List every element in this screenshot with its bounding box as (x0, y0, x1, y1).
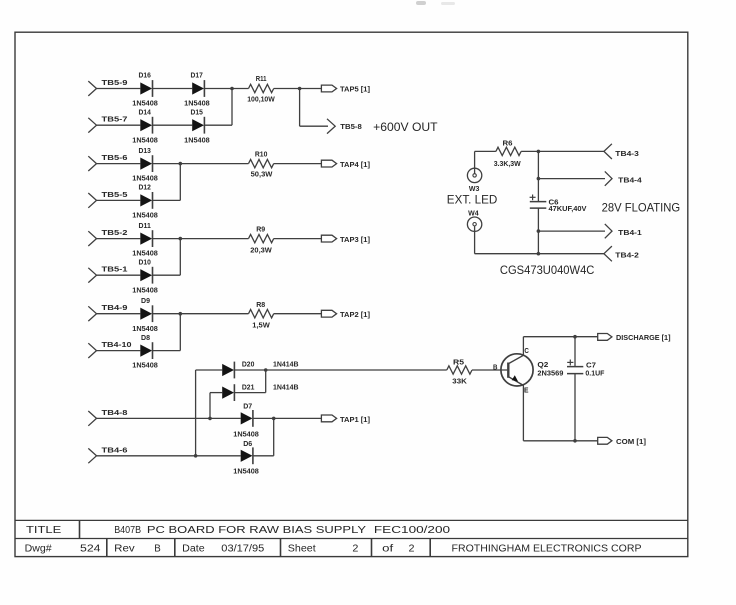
svg-text:Rev: Rev (114, 544, 135, 555)
svg-text:EXT. LED: EXT. LED (447, 192, 498, 206)
wire D15 right (204, 124, 232, 126)
terminal TB5-8 output arrow (327, 119, 335, 134)
junction J6 (D20/D21) (264, 368, 268, 372)
svg-text:1N5408: 1N5408 (184, 99, 210, 108)
wire D12 right (153, 199, 181, 201)
wire TB5-1 to D10 (97, 274, 141, 276)
wire emitter down (522, 385, 524, 440)
svg-text:TB4-2: TB4-2 (615, 251, 639, 260)
svg-text:R8: R8 (256, 300, 265, 309)
wire TB4-9 to D9 (97, 313, 141, 315)
diode D20 (222, 362, 234, 379)
terminal TB4-1 arrow (605, 224, 612, 238)
wire R5 to base (472, 369, 507, 371)
wire discharge rail (523, 336, 597, 338)
svg-text:Date: Date (182, 544, 205, 555)
wire D8 up to J5 (179, 314, 181, 351)
svg-text:D9: D9 (141, 296, 150, 305)
terminal TB4-4 arrow (605, 171, 612, 185)
svg-text:D10: D10 (139, 257, 151, 266)
wire to D21 anode (210, 392, 222, 394)
svg-text:TB4-10: TB4-10 (102, 340, 132, 349)
svg-text:28V FLOATING: 28V FLOATING (602, 201, 681, 215)
divider of/corp (429, 539, 431, 557)
svg-text:TB4-4: TB4-4 (618, 175, 642, 184)
junction J2 (TAP5/TB5-8) (298, 87, 302, 91)
divider dwg/rev (106, 539, 108, 557)
diode D6 (241, 447, 253, 464)
svg-text:R5: R5 (453, 357, 464, 366)
terminal W3 (467, 168, 481, 182)
svg-text:TB4-6: TB4-6 (102, 445, 128, 454)
svg-text:D21: D21 (242, 382, 255, 391)
svg-text:D6: D6 (243, 439, 252, 448)
capacitor C7 (567, 360, 583, 374)
svg-text:W4: W4 (468, 209, 479, 218)
svg-text:TAP3 [1]: TAP3 [1] (340, 235, 370, 244)
transistor Q2 body (501, 354, 533, 386)
wire D21 up to J6 (265, 370, 267, 393)
junction J9 (TB4-6/D20) (194, 454, 198, 458)
diode D15 (192, 117, 204, 134)
svg-text:TAP2 [1]: TAP2 [1] (340, 310, 370, 319)
svg-text:1N5408: 1N5408 (132, 285, 158, 294)
diode D14 (140, 117, 152, 134)
svg-text:Dwg#: Dwg# (25, 544, 52, 555)
wire R8 to TAP2 (274, 313, 322, 315)
wire D20 left drop (195, 370, 197, 456)
wire D14 to D15 (153, 124, 193, 126)
svg-text:524: 524 (80, 544, 101, 555)
svg-text:1N5408: 1N5408 (132, 211, 158, 220)
wire R10 to TAP4 (274, 163, 322, 165)
wire C7 bottom lead (574, 374, 576, 441)
wire D9 to R8 (153, 313, 249, 315)
svg-text:TITLE: TITLE (26, 525, 62, 536)
wire TB5-9 to D16 (97, 88, 141, 90)
svg-text:1,5W: 1,5W (252, 321, 270, 330)
diode D17 (192, 80, 204, 97)
svg-text:D20: D20 (242, 360, 255, 369)
scan smudge top (416, 1, 455, 5)
svg-text:FEC100/200: FEC100/200 (374, 525, 451, 536)
svg-text:1N5408: 1N5408 (132, 249, 158, 258)
wire collector up (522, 337, 524, 356)
wire C7 top lead (574, 337, 576, 367)
junction J5 (D9/D8) (179, 312, 183, 316)
wire TB4-6 to D6 (97, 455, 241, 457)
terminal TB4-6 input arrow (88, 448, 96, 463)
svg-text:R9: R9 (256, 225, 265, 234)
svg-text:D17: D17 (191, 71, 203, 80)
svg-text:2N3569: 2N3569 (537, 368, 563, 377)
svg-text:TB4-3: TB4-3 (615, 149, 639, 158)
svg-text:FROTHINGHAM ELECTRONICS CORP: FROTHINGHAM ELECTRONICS CORP (452, 544, 642, 555)
svg-text:1N5408: 1N5408 (233, 467, 258, 476)
svg-text:TAP5 [1]: TAP5 [1] (340, 85, 370, 94)
svg-text:1N414B: 1N414B (273, 360, 299, 369)
wire D20 to J6 (234, 369, 265, 371)
svg-text:TB5-1: TB5-1 (102, 265, 128, 274)
svg-text:1N5408: 1N5408 (132, 174, 158, 183)
wire D6 up to J8 (273, 418, 275, 455)
resistor R10 (249, 159, 274, 167)
resistor R8 (249, 310, 274, 318)
svg-text:TB5-7: TB5-7 (102, 115, 128, 124)
border frame (15, 32, 688, 556)
terminal TB5-1 input arrow (88, 268, 96, 283)
diode D10 (140, 267, 152, 284)
terminal TB5-6 input arrow (88, 156, 96, 171)
diode D8 (140, 342, 152, 359)
terminal TB5-9 input arrow (88, 81, 96, 96)
svg-text:2: 2 (409, 544, 415, 555)
title block top rule (15, 519, 688, 521)
svg-text:R10: R10 (255, 149, 268, 158)
divider sheet/of (371, 539, 373, 557)
junction J13 (TB4-4) (537, 177, 541, 181)
junction J4 (D11/D10) (179, 237, 183, 241)
junction J15 (TB4-2/bus) (537, 252, 541, 256)
terminal TB5-7 input arrow (88, 118, 96, 133)
wire com rail (523, 440, 597, 442)
terminal TB4-3 arrow (604, 144, 612, 159)
divider rev/date (174, 539, 176, 557)
flag COM (598, 437, 612, 444)
terminal W4 (467, 217, 481, 231)
wire D10 up to J4 (179, 239, 181, 276)
wire R6 to bus (521, 150, 604, 152)
junction J12 (R6/TB4-3) (537, 150, 541, 154)
svg-text:D14: D14 (139, 107, 151, 116)
svg-text:1N5408: 1N5408 (132, 99, 158, 108)
wire TB4-10 to D8 (97, 350, 141, 352)
flag TAP3 (321, 235, 336, 242)
svg-text:D13: D13 (139, 146, 151, 155)
terminal TB5-5 input arrow (88, 193, 96, 208)
wire TB4-2 rail (475, 253, 604, 255)
wire base net long (266, 369, 447, 371)
svg-text:TB4-1: TB4-1 (618, 228, 642, 237)
wire TB4-8 to D7 (97, 417, 241, 419)
diode D7 (241, 410, 253, 427)
capacitor C6 (530, 195, 547, 209)
svg-text:TB5-8: TB5-8 (340, 122, 362, 131)
svg-text:D15: D15 (191, 107, 203, 116)
svg-text:COM [1]: COM [1] (616, 437, 646, 446)
svg-text:D8: D8 (141, 333, 150, 342)
junction J7 (TB4-8/D21) (208, 417, 212, 421)
svg-text:TB5-6: TB5-6 (102, 153, 128, 162)
title cell divider (79, 520, 81, 538)
svg-text:33K: 33K (452, 376, 467, 385)
wire D16 to D17 (153, 88, 193, 90)
wire R11 to node J2 (274, 88, 322, 90)
wire to D20 anode (196, 369, 223, 371)
wire D17 to node J1 (204, 88, 248, 90)
flag TAP2 (321, 310, 336, 317)
svg-text:R6: R6 (503, 139, 513, 148)
junction J3 (D13/D12) (179, 162, 183, 166)
svg-text:1N414B: 1N414B (273, 382, 299, 391)
svg-text:TB4-8: TB4-8 (102, 408, 128, 417)
wire D15 up to J1 (231, 89, 233, 126)
svg-text:PC BOARD FOR RAW BIAS SUPPLY: PC BOARD FOR RAW BIAS SUPPLY (147, 525, 367, 536)
svg-text:B407B: B407B (114, 525, 141, 536)
wire D13 to R10 (153, 163, 249, 165)
resistor R6 (496, 147, 521, 155)
wire W3 up (474, 151, 476, 173)
wire D21 right (234, 392, 265, 394)
divider date/sheet (280, 539, 282, 557)
svg-text:D7: D7 (243, 401, 252, 410)
wire W3 to R6 (475, 150, 496, 152)
resistor R11 (249, 84, 274, 92)
terminal TB4-8 input arrow (88, 411, 96, 426)
junction J8 (D7/D6) (272, 417, 276, 421)
title block mid rule (15, 538, 688, 540)
wire D10 right (153, 274, 181, 276)
svg-text:CGS473U040W4C: CGS473U040W4C (500, 263, 595, 277)
svg-text:1N5408: 1N5408 (132, 135, 158, 144)
svg-text:B: B (154, 544, 161, 555)
wire D11 to R9 (153, 238, 249, 240)
svg-text:100,10W: 100,10W (247, 94, 275, 103)
wire TB5-2 to D11 (97, 238, 141, 240)
svg-text:50,3W: 50,3W (251, 169, 273, 178)
svg-text:TAP1 [1]: TAP1 [1] (340, 415, 370, 424)
junction J11 (C7 bottom) (573, 439, 577, 443)
wire TB5-5 to D12 (97, 199, 141, 201)
resistor R9 (249, 234, 274, 242)
svg-text:20,3W: 20,3W (250, 246, 272, 255)
junction J1 (D17/D15) (230, 87, 234, 91)
terminal TB5-2 input arrow (88, 231, 96, 246)
wire D21 left drop (209, 393, 211, 419)
wire D6 right (253, 455, 274, 457)
svg-text:03/17/95: 03/17/95 (221, 544, 264, 555)
svg-text:+600V OUT: +600V OUT (373, 120, 438, 134)
diode D13 (140, 155, 152, 172)
junction J10 (C7 top) (573, 335, 577, 339)
svg-text:D16: D16 (139, 71, 151, 80)
flag TAP1 (321, 415, 336, 422)
svg-text:D11: D11 (139, 221, 151, 230)
svg-text:47KUF,40V: 47KUF,40V (549, 204, 587, 213)
diode D21 (222, 384, 234, 401)
svg-text:1N5408: 1N5408 (132, 361, 158, 370)
resistor R5 (447, 366, 472, 374)
svg-text:TB4-9: TB4-9 (102, 303, 128, 312)
wire TB5-7 to D14 (97, 124, 141, 126)
svg-text:C: C (524, 346, 529, 355)
svg-text:TB5-5: TB5-5 (102, 190, 128, 199)
svg-text:TB5-2: TB5-2 (102, 228, 128, 237)
wire R9 to TAP3 (274, 238, 322, 240)
svg-text:0.1UF: 0.1UF (585, 369, 605, 378)
wire bus vertical lower (537, 208, 539, 254)
terminal TB4-9 input arrow (88, 306, 96, 321)
diode D9 (140, 305, 152, 322)
svg-text:1N5408: 1N5408 (184, 135, 210, 144)
svg-text:DISCHARGE [1]: DISCHARGE [1] (616, 333, 671, 342)
flag TAP5 (321, 85, 336, 92)
wire D7 to TAP1 (253, 417, 322, 419)
svg-text:D12: D12 (139, 183, 151, 192)
wire W4 down (474, 226, 476, 254)
wire J2 down (299, 89, 301, 127)
diode D11 (140, 230, 152, 247)
diode D16 (140, 80, 152, 97)
wire D12 up to J3 (179, 164, 181, 201)
wire bus vertical upper (537, 151, 539, 201)
flag TAP4 (321, 160, 336, 167)
svg-text:1N5408: 1N5408 (132, 324, 158, 333)
svg-text:E: E (524, 385, 529, 394)
terminal TB4-10 input arrow (88, 343, 96, 358)
wire to TB5-8 (300, 125, 328, 127)
svg-text:TB5-9: TB5-9 (102, 78, 128, 87)
svg-text:R11: R11 (256, 74, 267, 83)
terminal TB4-2 arrow (604, 246, 612, 261)
svg-text:1N5408: 1N5408 (233, 430, 258, 439)
wire TB4-1 branch (538, 230, 605, 232)
wire TB5-6 to D13 (97, 163, 141, 165)
diode D12 (140, 192, 152, 209)
svg-text:TAP4 [1]: TAP4 [1] (340, 160, 370, 169)
svg-text:3.3K,3W: 3.3K,3W (494, 159, 521, 168)
junction J14 (TB4-1) (537, 229, 541, 233)
wire D8 right (153, 350, 181, 352)
svg-text:of: of (382, 544, 393, 555)
wire TB4-4 branch (538, 178, 605, 180)
svg-text:Sheet: Sheet (288, 544, 316, 555)
svg-text:B: B (493, 363, 498, 372)
flag DISCHARGE (598, 334, 612, 341)
svg-text:2: 2 (352, 544, 358, 555)
